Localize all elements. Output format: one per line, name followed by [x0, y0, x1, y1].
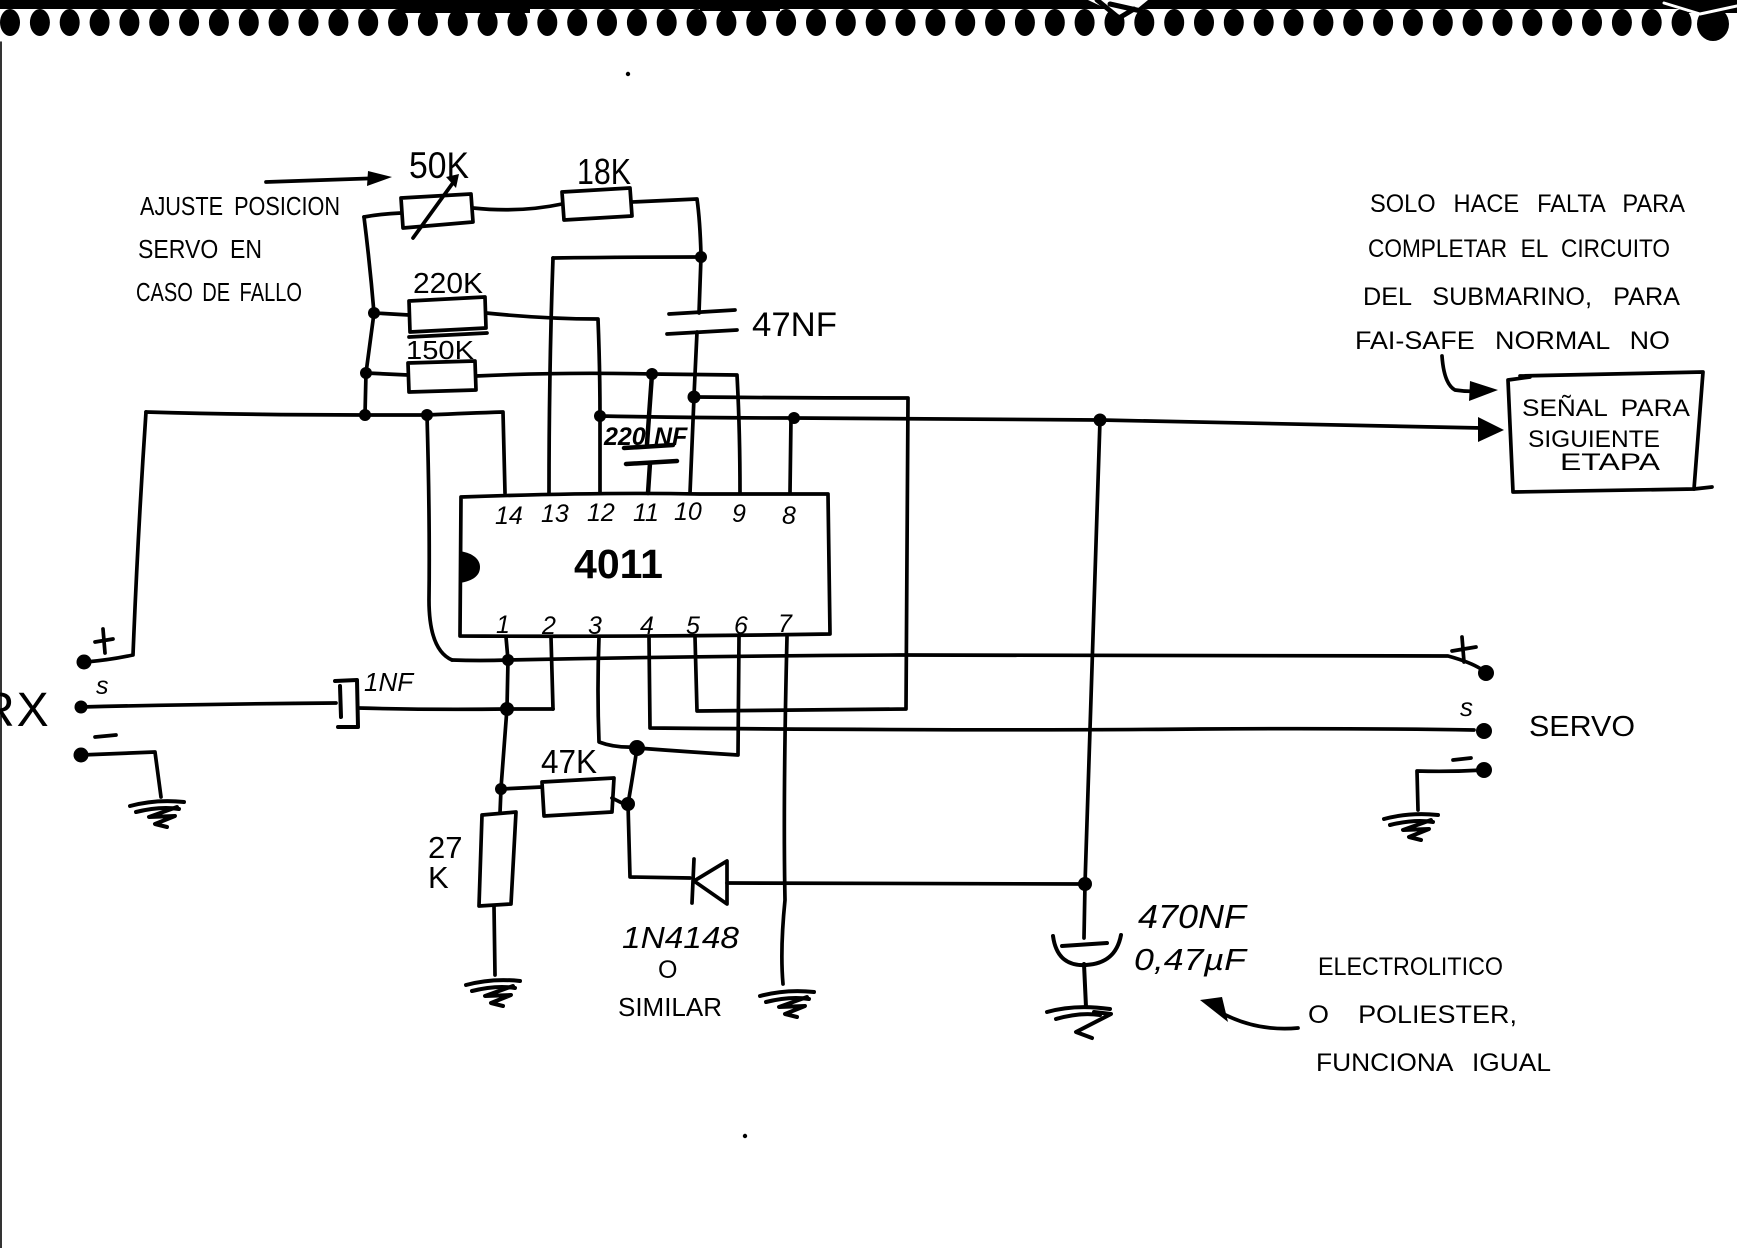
svg-text:FUNCIONA IGUAL: FUNCIONA IGUAL	[1316, 1049, 1551, 1077]
ground servo	[1384, 814, 1438, 840]
470nF riser from bus	[1084, 420, 1100, 938]
SERVO terminal s	[1460, 692, 1492, 739]
svg-text:2: 2	[541, 612, 556, 640]
IC pin numbers bottom	[496, 610, 793, 640]
svg-text:4: 4	[640, 612, 654, 640]
capacitor C2 220NF label	[603, 423, 688, 451]
IC-left vertical from bus to VDD rail	[427, 415, 452, 660]
svg-text:47NF: 47NF	[752, 306, 837, 344]
arrow to 470nF	[1200, 997, 1298, 1029]
RX terminal +	[77, 629, 114, 670]
wire 18K right, corner down to node B	[632, 199, 701, 255]
pin 8 riser	[790, 418, 791, 493]
box señal para siguiente etapa	[1508, 372, 1712, 492]
wire 27K bottom to ground	[494, 906, 495, 975]
arrow to 50K pot	[266, 171, 392, 186]
IC U1 4011 body	[459, 493, 830, 636]
capacitor C3 1nF body	[335, 680, 358, 727]
svg-text:470NF: 470NF	[1138, 898, 1248, 935]
wire diode to 470nF node	[727, 883, 1083, 884]
left rail vertical	[364, 217, 374, 415]
svg-text:K: K	[428, 860, 449, 895]
wire pot to 18K	[473, 204, 562, 210]
svg-text:13: 13	[541, 500, 569, 528]
capacitor C1 47nF body	[667, 257, 737, 396]
wire node to 27K top	[500, 789, 501, 813]
ground 27K	[466, 980, 520, 1006]
svg-text:1: 1	[496, 611, 510, 639]
perforation holes	[0, 9, 1721, 36]
svg-text:SEÑAL PARA: SEÑAL PARA	[1522, 395, 1690, 422]
svg-text:SERVO: SERVO	[1529, 711, 1635, 743]
svg-text:9: 9	[732, 500, 746, 528]
wire 220K right, corner down to pin 12	[486, 313, 600, 493]
notebook top edge bar	[0, 0, 1737, 13]
RX terminal -	[74, 735, 117, 763]
node B: pin13 / 18K / 47nF junction wire	[549, 251, 707, 493]
svg-text:s: s	[1460, 692, 1473, 722]
svg-text:ELECTROLITICO: ELECTROLITICO	[1318, 953, 1503, 981]
svg-text:0,47µF: 0,47µF	[1134, 942, 1248, 977]
capacitor C4 470nF body (electrolytic)	[1053, 935, 1121, 1007]
torn corner right	[1688, 0, 1737, 41]
scan edge left	[0, 42, 2, 1248]
svg-text:4011: 4011	[574, 541, 663, 587]
svg-text:5: 5	[686, 612, 700, 640]
resistor R4 150K body	[408, 361, 476, 392]
stray dot top	[626, 72, 630, 76]
pin 2 wire down	[551, 637, 553, 709]
wire RX+ riser	[86, 412, 146, 662]
RX - wire to ground	[81, 752, 161, 797]
signal wire RX s to 1nF	[81, 703, 336, 707]
svg-text:RX: RX	[0, 684, 51, 737]
svg-text:SOLO HACE FALTA PARA: SOLO HACE FALTA PARA	[1370, 190, 1685, 218]
wire pot left to rail	[364, 213, 401, 217]
node dot pins1-2 / signal	[500, 702, 514, 716]
ground RX	[130, 801, 184, 827]
node dots on left rail and bus	[359, 307, 433, 421]
svg-text:50K: 50K	[409, 145, 469, 186]
signal bus to next stage	[594, 410, 1504, 442]
note: solo hace falta para completar el circuito	[1355, 190, 1685, 355]
svg-text:1N4148: 1N4148	[622, 920, 740, 955]
stray dot bottom	[743, 1134, 747, 1138]
wire 47K right hook to node D	[612, 797, 635, 811]
svg-text:DEL SUBMARINO, PARA: DEL SUBMARINO, PARA	[1363, 283, 1680, 311]
node dot diode/470nF	[1078, 877, 1092, 891]
wire pins1-2 node to 47K	[495, 783, 542, 795]
svg-text:AJUSTE POSICION: AJUSTE POSICION	[140, 191, 340, 221]
resistor R3 220K body	[409, 297, 487, 337]
svg-text:FAI-SAFE NORMAL NO: FAI-SAFE NORMAL NO	[1355, 327, 1670, 355]
ground pin 7	[760, 991, 814, 1017]
svg-text:12: 12	[587, 499, 615, 527]
VDD horizontal to servo +	[452, 654, 1481, 669]
svg-text:47K: 47K	[541, 743, 597, 780]
node dot 150K/220nF	[646, 368, 658, 380]
capacitor C2 220nF body	[624, 374, 677, 493]
potentiometer R1 50K body	[401, 174, 473, 238]
wire node A down to node D	[628, 748, 637, 804]
wire node A to pin 6	[637, 637, 739, 755]
SERVO terminal -	[1453, 758, 1492, 778]
resistor R2 18K body	[562, 188, 632, 220]
svg-text:O: O	[658, 956, 677, 984]
pin 4 wire and servo s wire	[649, 637, 1474, 730]
svg-text:10: 10	[674, 498, 702, 526]
svg-text:11: 11	[633, 499, 659, 527]
signal wire 1nF to pins 1-2	[358, 708, 507, 709]
resistor R6 27K label	[428, 830, 462, 895]
IC pin numbers top	[495, 498, 796, 530]
note: electrolitico o poliester funciona igual	[1308, 953, 1551, 1077]
ground 470nF	[1047, 1007, 1111, 1038]
svg-text:220K: 220K	[413, 268, 484, 300]
wire 150K right to pin 9, with 220nF tap	[476, 373, 740, 493]
svg-text:8: 8	[782, 502, 796, 530]
svg-text:ETAPA: ETAPA	[1560, 449, 1660, 476]
svg-text:14: 14	[495, 502, 523, 530]
pin 1 wire down	[501, 637, 508, 788]
svg-text:O POLIESTER,: O POLIESTER,	[1308, 1001, 1517, 1029]
wire node D down to diode	[628, 804, 690, 878]
VDD bus left segment to pin 14	[146, 412, 505, 493]
note: ajuste posicion servo en caso de fallo	[136, 191, 340, 307]
torn corner mark	[1088, 0, 1148, 18]
pin 7 wire to ground	[782, 637, 787, 984]
svg-text:6: 6	[734, 612, 748, 640]
capacitor C4 labels	[1134, 898, 1248, 977]
svg-text:COMPLETAR EL CIRCUITO: COMPLETAR EL CIRCUITO	[1368, 235, 1670, 263]
resistor R6 27K body	[479, 812, 516, 906]
svg-text:1NF: 1NF	[364, 667, 415, 697]
svg-text:SERVO EN: SERVO EN	[138, 234, 262, 264]
curved arrow note to box	[1442, 356, 1498, 401]
servo - wire to ground	[1417, 770, 1484, 810]
node C: 47nF bottom / pin10 / pin5 loop	[688, 391, 909, 712]
box text	[1522, 395, 1690, 476]
diode labels	[618, 920, 740, 1022]
SERVO terminal +	[1452, 637, 1494, 681]
svg-text:s: s	[96, 672, 109, 700]
wire node to pin2	[507, 707, 553, 711]
diode D1 1N4148 body	[692, 859, 727, 904]
pin 3 wire to node A	[598, 637, 645, 756]
svg-text:18K: 18K	[577, 151, 631, 192]
resistor R5 47K body	[542, 778, 614, 816]
RX terminal s	[75, 672, 109, 714]
svg-text:CASO DE FALLO: CASO DE FALLO	[136, 277, 302, 307]
wire rail to 220K	[374, 313, 409, 315]
svg-text:SIMILAR: SIMILAR	[618, 992, 722, 1022]
wire rail to 150K	[366, 373, 408, 375]
svg-text:7: 7	[778, 610, 793, 638]
